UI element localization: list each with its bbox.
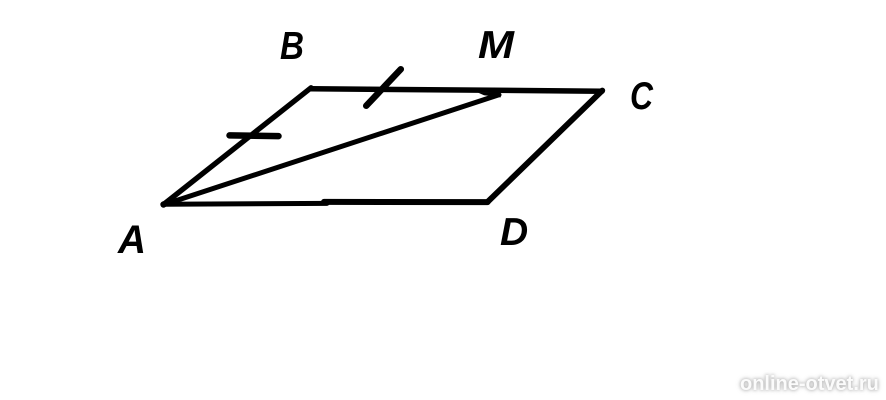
watermark online-otvet.ru	[740, 374, 879, 394]
svg-text:C: C	[630, 75, 654, 118]
svg-text:D: D	[500, 211, 528, 254]
tick mark on BM	[366, 69, 401, 106]
wire: side DA left part	[164, 201, 327, 207]
tick mark on AB	[230, 132, 279, 139]
node A	[160, 201, 166, 207]
wire: side BC	[311, 89, 602, 91]
wire: side DA	[324, 199, 488, 205]
wire: side CD	[488, 91, 603, 203]
svg-text:B: B	[280, 25, 304, 68]
wire: segment AM	[164, 95, 500, 205]
wire: side AB	[164, 88, 312, 205]
junction wedge at M	[478, 93, 501, 98]
svg-text:M: M	[478, 24, 516, 67]
svg-text:A: A	[117, 218, 146, 262]
